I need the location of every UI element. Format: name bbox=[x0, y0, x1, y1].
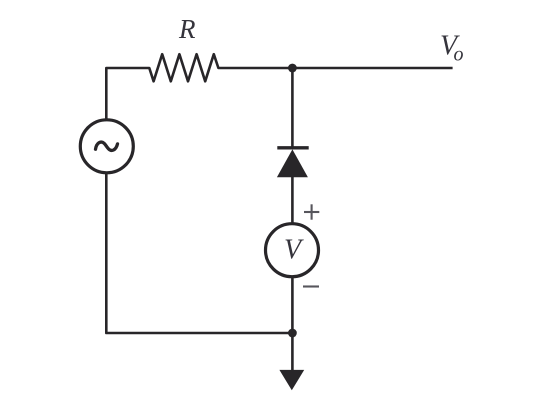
svg-text:R: R bbox=[178, 14, 196, 44]
svg-text:V: V bbox=[284, 235, 304, 266]
svg-text:o: o bbox=[454, 44, 464, 66]
